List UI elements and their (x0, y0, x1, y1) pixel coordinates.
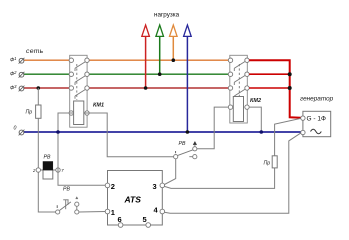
load arrow orange (170, 25, 178, 60)
fuse Pr left (26, 105, 42, 118)
ATS pin 1 (105, 208, 115, 217)
node neutral at x58 (56, 130, 60, 134)
wire phase L2 green: terminal to KM1 (24, 73, 69, 75)
svg-text:G - 1Ф: G - 1Ф (307, 116, 326, 123)
ATS pin 3 (153, 182, 165, 191)
KM1 coil (69, 101, 89, 125)
label генератор (300, 96, 334, 103)
label нагрузка (154, 12, 180, 19)
relay PB body (32, 155, 64, 180)
node bus L2 (288, 72, 292, 76)
ATS box (108, 171, 163, 226)
ATS pin 5 (143, 215, 151, 227)
load arrow blue (184, 25, 192, 132)
KM2 contact pole 2 (228, 72, 249, 85)
terminal Ф2 (10, 70, 24, 78)
ATS pin 2 (105, 182, 115, 191)
node fuse tap on L3 (37, 86, 41, 90)
wire KM1 coil A2 to PB changeover (84, 113, 174, 157)
contactor KM1 block (70, 55, 87, 127)
terminal 0 (14, 126, 25, 136)
label сеть (26, 48, 44, 55)
svg-text:КМ1: КМ1 (93, 103, 104, 109)
KM2 contact pole 3 (228, 86, 249, 98)
KM1 linkage dashed (76, 64, 78, 100)
PB timed contact (bottom) (56, 187, 79, 215)
label KM2 (250, 98, 261, 104)
terminal Ф1 (10, 56, 24, 64)
KM1 contact pole 1 (69, 58, 89, 71)
KM1 contact pole 3 (69, 86, 89, 99)
node neutral at x261 (260, 130, 264, 134)
wire ATS-4 to generator N (165, 133, 301, 213)
svg-text:ATS: ATS (124, 195, 142, 205)
wire fuse to generator phase (275, 118, 301, 155)
wire KM2 out L3 red (249, 87, 290, 89)
svg-text:1: 1 (111, 208, 115, 217)
terminal Ф3 (10, 84, 24, 91)
svg-text:РВ: РВ (44, 155, 51, 161)
svg-text:сеть: сеть (26, 48, 44, 55)
PB timed changeover contact (middle) (174, 141, 197, 159)
node bus L3 (288, 86, 292, 90)
KM2 linkage dashed (238, 64, 240, 96)
load arrow green (156, 25, 164, 74)
svg-text:5: 5 (143, 215, 147, 224)
wire KM2 out L1 red to bus (249, 60, 301, 118)
wire phase L3 red: KM1 to KM2 (89, 87, 228, 89)
wire ATS-3 to fuse and generator L (164, 168, 274, 189)
svg-text:Пр: Пр (26, 110, 33, 116)
load arrow red (142, 25, 150, 88)
generator G-1F (301, 111, 331, 136)
svg-text:6: 6 (118, 215, 122, 224)
label KM1 (93, 103, 104, 109)
wire phase L1 orange: KM1 to KM2 (89, 59, 228, 61)
svg-text:генератор: генератор (300, 96, 334, 103)
svg-text:нагрузка: нагрузка (154, 12, 180, 19)
svg-text:3: 3 (153, 182, 157, 191)
wire PB common to ATS-3 (164, 159, 176, 185)
contactor KM2 block (230, 55, 248, 123)
node load L1 (172, 58, 176, 62)
ATS pin 4 (154, 206, 165, 215)
KM2 coil (228, 97, 249, 122)
KM1 contact pole 2 (69, 72, 89, 85)
svg-text:РВ: РВ (179, 141, 186, 147)
wire phase L1 orange: terminal to KM1 (24, 59, 69, 61)
KM2 contact pole 1 (228, 58, 249, 71)
node load L3 (144, 86, 148, 90)
wire fuse to relay PB terminal 2 (37, 118, 39, 170)
ATS pin 6 (118, 215, 123, 227)
node load L2 (158, 72, 162, 76)
svg-text:Пр: Пр (264, 161, 271, 167)
wire phase L3 red: terminal to KM1 (24, 87, 69, 89)
svg-text:2: 2 (111, 182, 115, 191)
svg-text:РВ: РВ (63, 187, 70, 193)
fuse Pr right (264, 156, 278, 168)
wire PB NO to KM2 coil A1 (197, 107, 228, 149)
svg-text:0: 0 (14, 126, 17, 132)
wire neutral blue (24, 131, 301, 133)
svg-text:КМ2: КМ2 (250, 98, 261, 104)
wire L3 to fuse (37, 88, 39, 105)
wire PB contact to ATS-1 (79, 211, 105, 214)
wire KM2 out L2 red (249, 73, 290, 75)
wire KM1 coil A1 to neutral node and ATS-2 (58, 113, 105, 185)
wire relay PB down to contact (38, 170, 55, 212)
node load N (186, 130, 190, 134)
wire phase L2 green: KM1 to KM2 (89, 73, 228, 75)
wire KM2 coil A2 to neutral (249, 107, 261, 132)
